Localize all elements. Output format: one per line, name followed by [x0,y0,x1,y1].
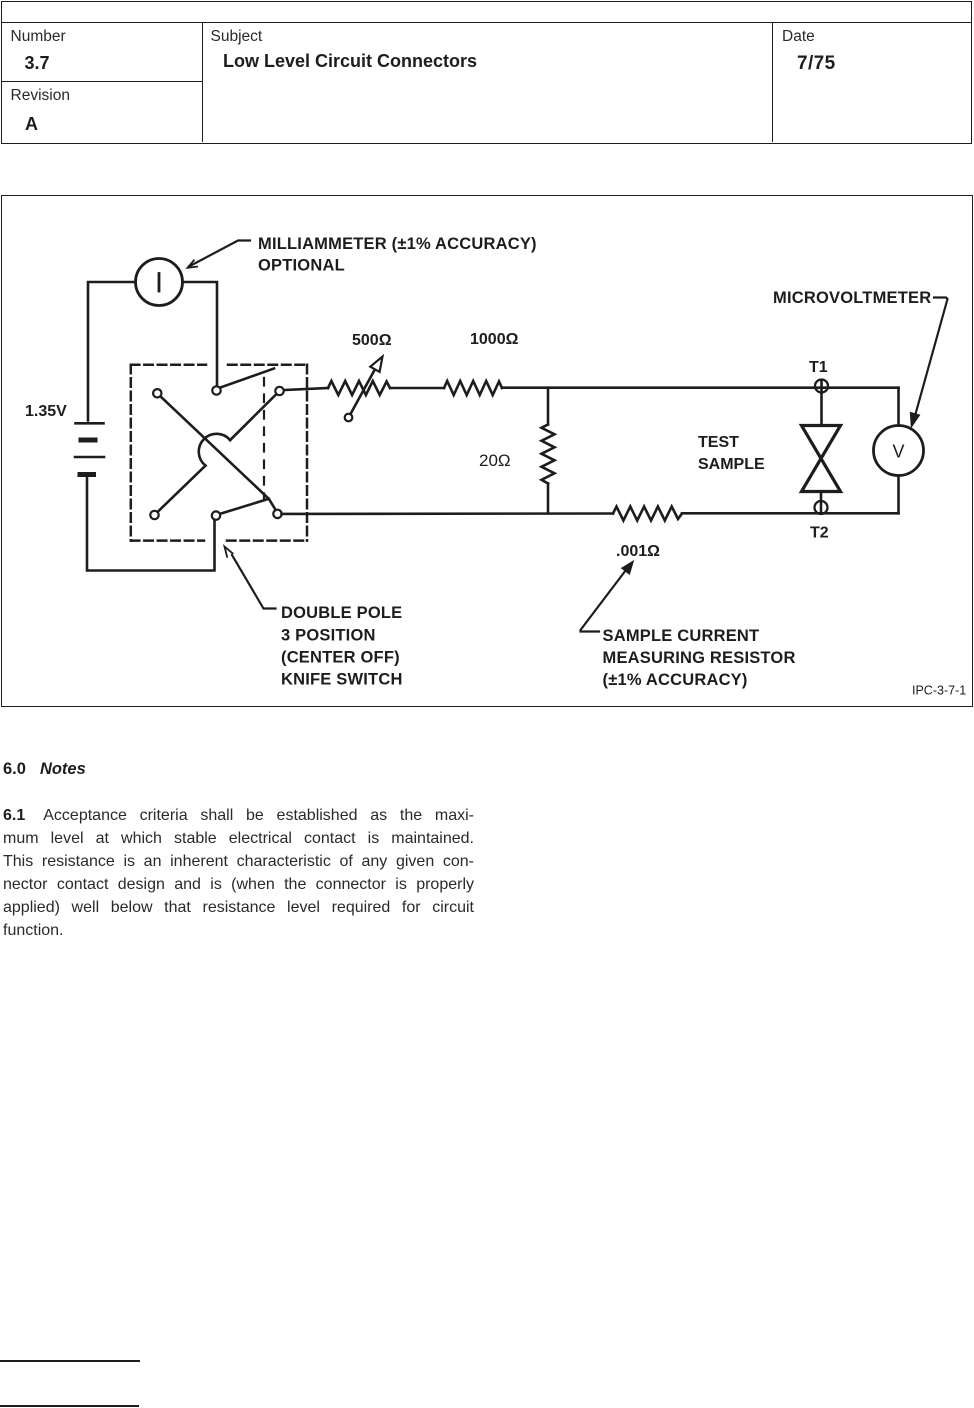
switch S1 dashed enclosure top edge [131,365,307,541]
test sample bowtie [802,426,841,492]
switch callout text [281,604,403,689]
microvoltmeter leader line [913,298,948,424]
circuit figure frame [1,195,973,707]
vertical divider number/subject [202,23,203,142]
header value 3.7 [25,53,50,74]
svg-text:TEST: TEST [698,434,739,451]
wire: bottom rail left [282,512,614,515]
footer rule lower [0,1405,139,1407]
milliammeter label I [158,274,161,292]
svg-text:OPTIONAL: OPTIONAL [258,257,345,275]
sample resistor callout text [603,627,796,689]
resistor R4 .001 ohm [613,507,682,521]
switch contact top-left [153,389,161,397]
switch enclosure right edge [306,365,309,541]
wire: test sample to T2 [820,492,823,514]
switch leader arrowhead [225,547,233,557]
vertical divider subject/date [772,23,773,142]
wire: top rail corner down to voltmeter [897,388,900,426]
milliammeter M1 [136,259,183,306]
resistor R2 1000 ohm [444,381,502,395]
switch contact bottom-middle [212,511,220,519]
header cell label Date [782,28,815,46]
milliammeter leader line [189,241,250,267]
battery B1 1.35V plate long top [76,422,104,425]
svg-text:.001Ω: .001Ω [616,543,660,560]
microvoltmeter leader arrowhead [911,413,920,427]
header cell label Number [11,28,66,46]
switch blade upper (pivot to open) [219,369,274,389]
switch contact bottom-left [150,511,158,519]
svg-text:V: V [892,442,904,462]
switch crossbar upper segment [230,394,276,440]
wire: T1 to test sample [820,381,823,426]
potentiometer wiper arrowhead [370,357,382,372]
battery plate short [81,438,95,443]
header top strip line [1,22,972,23]
svg-text:MILLIAMMETER (±1% ACCURACY): MILLIAMMETER (±1% ACCURACY) [258,235,537,253]
svg-text:500Ω: 500Ω [352,332,392,349]
terminal T2 circle [815,501,828,514]
svg-text:1000Ω: 1000Ω [470,331,519,348]
sample resistor leader arrowhead [622,562,633,574]
potentiometer wiper arrow shaft [351,371,375,414]
svg-text:(±1% ACCURACY): (±1% ACCURACY) [603,671,748,689]
header value 7/75 [797,53,836,75]
potentiometer R1 500 ohm zigzag [328,381,390,395]
wire: battery bottom loop to switch [87,475,215,571]
svg-text:DOUBLE POLE: DOUBLE POLE [281,604,402,622]
header row divider (left column) [2,81,203,82]
wire hop arc [199,434,230,466]
header cell label Subject [211,28,263,46]
switch inner dashed partition [263,378,265,500]
switch leader line [232,555,276,609]
header outer frame [1,1,972,144]
svg-text:KNIFE SWITCH: KNIFE SWITCH [281,671,403,689]
wire: voltmeter to bottom rail [897,476,900,514]
wire: bottom rail right [682,512,899,515]
wire: switch to potentiometer [284,388,328,390]
wire: ammeter left to battery top [88,282,136,421]
svg-text:MICROVOLTMETER: MICROVOLTMETER [773,289,931,307]
milliammeter leader arrowhead [188,260,198,267]
footer rule upper [0,1360,140,1362]
switch contact top-right [275,387,283,395]
battery plate long [75,456,104,459]
switch enclosure left edge [130,365,133,541]
svg-text:MEASURING RESISTOR: MEASURING RESISTOR [603,649,796,667]
svg-text:T2: T2 [810,525,829,542]
svg-text:3 POSITION: 3 POSITION [281,627,376,645]
battery plate short bottom [80,472,94,477]
svg-text:T1: T1 [809,359,828,376]
svg-text:20Ω: 20Ω [479,451,511,470]
switch crossbar: bottom-left to top-right with hop [158,466,206,512]
switch contact top-middle [212,386,220,394]
svg-text:1.35V: 1.35V [25,403,67,420]
wire: pot to R2 [390,387,444,390]
svg-text:(CENTER OFF): (CENTER OFF) [281,649,400,667]
sample resistor leader line [581,566,630,632]
switch crossbar: top-left to lower junction [160,396,269,499]
note 6.1 paragraph [3,804,474,942]
resistor R3 20 ohm vertical [547,388,550,425]
voltmeter V1 [874,426,924,476]
svg-text:IPC-3-7-1: IPC-3-7-1 [912,684,966,698]
switch contact bottom-right [273,510,281,518]
terminal T1 circle [815,380,828,393]
svg-text:SAMPLE CURRENT: SAMPLE CURRENT [603,627,760,645]
switch enclosure bottom edge [131,539,204,542]
wire: ammeter right down to switch top pivot [183,282,218,386]
potentiometer wiper terminal [345,414,353,422]
header value A [25,114,38,135]
svg-text:SAMPLE: SAMPLE [698,456,765,473]
header value subject title [223,51,477,72]
header cell label Revision [11,87,70,105]
switch blade lower [220,499,277,514]
wire: top rail to right corner [502,386,899,389]
notes heading 6.0 Notes [3,760,86,779]
